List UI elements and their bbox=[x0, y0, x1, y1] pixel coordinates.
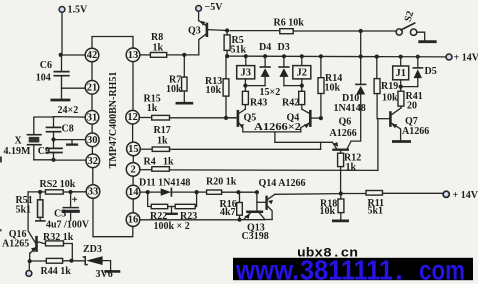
svg-text:R19: R19 bbox=[381, 81, 398, 92]
node R51 top bbox=[38, 190, 42, 194]
pin 33 bbox=[86, 185, 100, 199]
diode D11 1N4148 bbox=[139, 178, 197, 196]
svg-text:Q6: Q6 bbox=[339, 116, 352, 127]
wire Q6 collector to D10 bbox=[351, 95, 361, 141]
resistor R22 bbox=[148, 192, 168, 222]
ground (R22/R23) bbox=[167, 207, 176, 214]
resistor R8 1k bbox=[140, 32, 199, 57]
svg-text:TMP47C400BN-RH51: TMP47C400BN-RH51 bbox=[108, 72, 119, 169]
wire to pin 30 bbox=[54, 139, 86, 141]
resistor R4 1k (pin 2) bbox=[140, 156, 378, 171]
pin 42 bbox=[85, 48, 99, 62]
svg-text:1.5V: 1.5V bbox=[68, 5, 89, 16]
transistor Q6 bbox=[330, 116, 357, 149]
svg-text:10k: 10k bbox=[166, 84, 182, 95]
svg-text:D5: D5 bbox=[425, 66, 437, 77]
svg-text:R17: R17 bbox=[154, 125, 171, 136]
transistor Q7 bbox=[378, 108, 429, 140]
wire Q14 emitter to R18 node bbox=[275, 193, 341, 196]
svg-text:5k1: 5k1 bbox=[368, 205, 384, 216]
resistor R11 5k1 bbox=[341, 191, 443, 217]
node R16 bottom bbox=[237, 218, 241, 222]
node Q13/Q14 base bbox=[255, 190, 259, 194]
transistor Q14 A1266 bbox=[257, 178, 306, 220]
diode D5 bbox=[401, 57, 437, 87]
resistor R17 1k bbox=[141, 125, 321, 151]
capacitor C9 bbox=[38, 140, 62, 160]
svg-text:A1266: A1266 bbox=[330, 128, 357, 139]
node R12/R18/R11 bbox=[339, 191, 343, 195]
svg-text:100k × 2: 100k × 2 bbox=[154, 221, 190, 232]
wire to pin 32 bbox=[54, 159, 87, 161]
svg-text:D3: D3 bbox=[278, 42, 290, 53]
resistor R12 1k bbox=[338, 151, 362, 194]
wire pin2 net to Q7 base bbox=[377, 119, 379, 171]
svg-text:−5V: −5V bbox=[205, 2, 224, 13]
node R13/R15/Q5 base bbox=[224, 116, 228, 120]
svg-text:Q3: Q3 bbox=[188, 26, 201, 37]
ground (C6) bbox=[52, 88, 69, 100]
svg-text:C8: C8 bbox=[62, 124, 74, 135]
svg-text:15: 15 bbox=[128, 144, 139, 155]
svg-text:12: 12 bbox=[127, 112, 138, 123]
svg-text:J1: J1 bbox=[395, 68, 406, 79]
wire emitter net to Q6 bbox=[275, 141, 333, 143]
pin 13 bbox=[126, 48, 140, 62]
ground (R18) bbox=[333, 220, 347, 223]
svg-text:32: 32 bbox=[88, 156, 99, 167]
relay J2 bbox=[293, 56, 311, 85]
pin 30 bbox=[86, 133, 100, 147]
svg-text:J2: J2 bbox=[297, 68, 308, 79]
resistor R41 20 bbox=[398, 87, 423, 112]
terminal -5V bbox=[196, 2, 223, 13]
svg-text:16: 16 bbox=[128, 215, 139, 226]
wire emitter stub down bbox=[274, 132, 276, 142]
svg-text:3811111: 3811111 bbox=[300, 255, 393, 284]
pin 15 bbox=[127, 142, 141, 156]
svg-text:RS2 10k: RS2 10k bbox=[40, 179, 76, 190]
wire emitter rail bbox=[243, 131, 301, 133]
svg-text:C3198: C3198 bbox=[242, 231, 269, 242]
svg-text:10k: 10k bbox=[206, 85, 222, 96]
svg-text:D11 1N4148: D11 1N4148 bbox=[139, 178, 190, 189]
wire (scan artifact, left edge) bbox=[0, 157, 2, 163]
svg-text:33: 33 bbox=[88, 187, 99, 198]
resistor R23 bbox=[168, 192, 198, 222]
resistor R19 10k bbox=[374, 57, 398, 119]
capacitor C8 bbox=[47, 124, 74, 140]
zener diode ZD3 3V6 bbox=[83, 244, 119, 280]
resistor R44 1k bbox=[30, 258, 84, 277]
svg-text:R44 1k: R44 1k bbox=[41, 266, 72, 277]
wire IC left column bbox=[91, 62, 94, 185]
svg-text:21: 21 bbox=[87, 82, 98, 93]
wire to pin 42 bbox=[61, 54, 85, 56]
wire bridge pins 42-13 bbox=[92, 37, 133, 49]
node rail J1 bbox=[399, 55, 403, 59]
resistor R18 10k bbox=[320, 194, 344, 220]
node Q3 base / R5 bbox=[225, 28, 229, 32]
diode D4 bbox=[260, 56, 270, 85]
wire +14V rail bbox=[227, 55, 446, 58]
node Q16 emitter / R44 bbox=[28, 259, 32, 263]
resistor R51 5k1 bbox=[16, 192, 45, 221]
resistor R13 10k bbox=[205, 56, 229, 118]
node rail R19 bbox=[375, 55, 379, 59]
svg-text:R8: R8 bbox=[151, 32, 163, 43]
svg-text:R6 10k: R6 10k bbox=[274, 18, 305, 29]
svg-text:.: . bbox=[395, 255, 403, 284]
pin 32 bbox=[86, 154, 100, 168]
svg-text:C3: C3 bbox=[54, 208, 66, 219]
wire to pin 21 bbox=[62, 87, 86, 89]
resistor R32 1k bbox=[43, 232, 74, 261]
resistor R16 4k7 bbox=[220, 192, 243, 220]
node rail D3 bbox=[282, 54, 286, 58]
node J2/D3 bbox=[300, 84, 304, 88]
ground (R7) bbox=[177, 102, 192, 105]
node J1/D5/R41 bbox=[399, 85, 403, 89]
svg-text:20: 20 bbox=[407, 101, 417, 112]
node rail J3 bbox=[244, 54, 248, 58]
node C3 top bbox=[69, 190, 73, 194]
capacitor C3 4u7/100V bbox=[46, 192, 90, 231]
node J3/D4 bbox=[243, 84, 247, 88]
switch S2 bbox=[396, 10, 425, 41]
ground (Q7) bbox=[393, 140, 409, 143]
svg-text:31: 31 bbox=[87, 112, 98, 123]
svg-text:C9: C9 bbox=[38, 146, 50, 157]
terminal 1.5V bbox=[59, 5, 88, 55]
transistor Q4 bbox=[287, 109, 321, 132]
svg-text:42: 42 bbox=[87, 50, 98, 61]
wire pin 16 net bbox=[140, 219, 265, 221]
watermark band bbox=[233, 258, 473, 280]
svg-text:14: 14 bbox=[128, 187, 139, 198]
pin 14 bbox=[126, 185, 140, 199]
transistor Q5 bbox=[226, 109, 256, 132]
node rail D5 bbox=[416, 55, 420, 59]
svg-text:A1265: A1265 bbox=[2, 239, 29, 250]
resistor R14 10k bbox=[318, 56, 342, 118]
node R44/ZD3 bbox=[69, 259, 73, 263]
resistor R7 10k bbox=[166, 55, 187, 102]
node rail R14 bbox=[319, 54, 323, 58]
crystal X1 4.19M bbox=[4, 135, 42, 160]
pin 16 bbox=[126, 213, 140, 227]
svg-text:1k: 1k bbox=[157, 136, 168, 147]
diode D10 1N4148 bbox=[334, 31, 366, 114]
node 1.5V junction bbox=[59, 53, 63, 57]
diode D3 bbox=[279, 56, 302, 85]
pin 12 bbox=[126, 110, 140, 124]
svg-text:Q14 A1266: Q14 A1266 bbox=[259, 178, 306, 189]
svg-text:30: 30 bbox=[87, 135, 98, 146]
svg-text:51k: 51k bbox=[231, 44, 247, 55]
ground (osc) bbox=[67, 140, 77, 145]
svg-text:2: 2 bbox=[130, 164, 135, 175]
transistor Q16 A1265 bbox=[2, 192, 46, 261]
wire pin 31 to crystal net bbox=[54, 117, 86, 127]
svg-text:com: com bbox=[419, 255, 465, 284]
resistor R20 1k bbox=[197, 177, 257, 195]
node R7 tap bbox=[182, 53, 186, 57]
svg-text:A1266: A1266 bbox=[402, 126, 429, 137]
node R16 top bbox=[236, 190, 240, 194]
resistor R6 10k bbox=[230, 18, 396, 34]
wire IC right column bbox=[132, 62, 135, 213]
node D11 cathode bbox=[195, 190, 199, 194]
svg-text:3V6: 3V6 bbox=[96, 269, 113, 280]
svg-text:4k7: 4k7 bbox=[220, 207, 236, 218]
svg-text:R20 1k: R20 1k bbox=[206, 177, 237, 188]
wire crystal branch bbox=[34, 117, 54, 134]
svg-text:www.: www. bbox=[235, 255, 299, 284]
terminal +14V (lower) bbox=[443, 190, 478, 201]
svg-text:10k: 10k bbox=[382, 93, 398, 104]
svg-text:10k: 10k bbox=[325, 83, 341, 94]
svg-text:4.19M: 4.19M bbox=[4, 146, 32, 157]
wire bbox=[61, 12, 63, 55]
svg-text:24×2: 24×2 bbox=[58, 105, 79, 116]
pin 31 bbox=[85, 111, 99, 125]
wire J3 to D4 bbox=[245, 85, 265, 87]
svg-text:13: 13 bbox=[128, 50, 139, 61]
ground (S2) bbox=[420, 40, 436, 43]
svg-text:4u7 /100V: 4u7 /100V bbox=[46, 220, 90, 231]
svg-text:ZD3: ZD3 bbox=[83, 244, 102, 255]
svg-text:+ 14V: + 14V bbox=[453, 190, 478, 201]
node D11 anode bbox=[146, 190, 150, 194]
svg-text:1k: 1k bbox=[147, 103, 158, 114]
resistor R5 51k bbox=[224, 31, 246, 57]
terminal (bottom left) bbox=[26, 261, 32, 276]
transistor Q3 bbox=[188, 11, 227, 55]
svg-text:1k: 1k bbox=[163, 156, 174, 167]
svg-text:R4: R4 bbox=[144, 156, 156, 167]
wire pin 33 to pin 16 bbox=[93, 198, 133, 236]
terminal +14V (top) bbox=[446, 53, 478, 64]
resistor R43 bbox=[242, 86, 267, 110]
relay J3 bbox=[237, 56, 255, 85]
wire emitter net vertical bbox=[320, 142, 322, 149]
svg-text:1N4148: 1N4148 bbox=[334, 103, 366, 114]
node rail D10 bbox=[359, 54, 363, 58]
resistor R52 10k bbox=[28, 179, 76, 194]
transistor Q13 C3198 bbox=[242, 192, 269, 242]
svg-text:10k: 10k bbox=[320, 206, 336, 217]
svg-text:104: 104 bbox=[36, 73, 51, 84]
svg-text:R42: R42 bbox=[282, 98, 299, 109]
node Q4 base / R14 bbox=[319, 116, 323, 120]
wire to pin 33 bbox=[71, 191, 87, 193]
capacitor C6 bbox=[36, 55, 69, 88]
node S2 branch bbox=[359, 29, 363, 33]
wire crystal bottom to C9 net bbox=[34, 159, 54, 161]
resistor R42 bbox=[282, 86, 305, 109]
pin 21 bbox=[85, 81, 99, 95]
node rail D4 bbox=[263, 54, 267, 58]
node crystal/C9 bbox=[51, 158, 55, 162]
node rail R5 bbox=[225, 54, 229, 58]
svg-text:1k: 1k bbox=[346, 162, 357, 173]
svg-text:X: X bbox=[15, 136, 23, 147]
resistor R15 1k bbox=[139, 94, 236, 121]
svg-text:D4: D4 bbox=[259, 42, 271, 53]
node C8/C9 bbox=[51, 137, 55, 141]
node rail J2 bbox=[300, 54, 304, 58]
relay J1 bbox=[393, 57, 409, 87]
svg-text:15×2: 15×2 bbox=[260, 87, 281, 98]
pin 2 bbox=[126, 163, 140, 177]
svg-text:A1266×2: A1266×2 bbox=[254, 122, 301, 133]
svg-text:J3: J3 bbox=[240, 68, 251, 79]
svg-text:R43: R43 bbox=[250, 98, 267, 109]
svg-text:+ 14V: + 14V bbox=[454, 53, 478, 64]
svg-text:C6: C6 bbox=[40, 60, 52, 71]
